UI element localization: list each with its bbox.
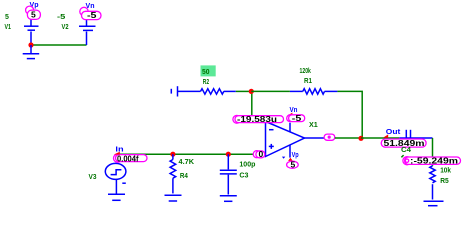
- wire junction to R1: [251, 90, 290, 92]
- svg-text:5: 5: [31, 10, 36, 20]
- svg-text:10k: 10k: [440, 168, 451, 175]
- label Vp: [30, 2, 39, 9]
- node junction R4: [170, 152, 175, 157]
- svg-text:R2: R2: [203, 79, 209, 86]
- input port I: [171, 86, 177, 96]
- svg-text:50: 50: [202, 69, 210, 76]
- node junction V1/V2/gnd: [28, 42, 33, 47]
- svg-text:Vp: Vp: [292, 152, 299, 159]
- op-amp U X1: [266, 122, 305, 158]
- label Out: [386, 129, 401, 136]
- label Vn: [86, 3, 95, 10]
- svg-text:0: 0: [259, 149, 264, 159]
- marker Vp: [288, 158, 293, 161]
- svg-text:-5: -5: [292, 113, 302, 123]
- svg-text:4.7K: 4.7K: [179, 159, 195, 166]
- label Vp (op-amp V+): [292, 152, 299, 159]
- wire port to R2: [178, 90, 201, 92]
- svg-text:R5: R5: [440, 178, 449, 185]
- bias balloon -19.583u (inverting input): [233, 114, 284, 124]
- designator C4: [401, 147, 411, 154]
- bias balloon -5 (op-amp V-): [287, 113, 305, 123]
- designator V1: [5, 24, 12, 31]
- wire junction down to inverting input: [251, 94, 253, 116]
- marker In: [114, 152, 120, 155]
- bias balloon V2 value -5: [80, 7, 101, 20]
- svg-text:R4: R4: [180, 173, 188, 180]
- designator R4: [180, 173, 188, 180]
- wire op-amp output: [305, 137, 325, 139]
- ground (V3): [108, 194, 125, 200]
- svg-text:-5: -5: [57, 14, 65, 21]
- svg-text:V2: V2: [62, 24, 69, 31]
- resistor R5: [430, 166, 435, 200]
- bias balloon 0.004f (In): [114, 154, 148, 164]
- designator X1: [309, 122, 318, 129]
- ground (R5): [424, 201, 444, 206]
- label Vn (op-amp V-): [290, 107, 298, 114]
- value -5 (V2): [57, 14, 65, 21]
- resistor R1: [290, 89, 338, 95]
- node junction C3: [226, 152, 231, 157]
- marker tick: [401, 155, 403, 157]
- designator V3: [89, 174, 97, 181]
- voltage source V2: [79, 20, 96, 45]
- value 100p: [239, 161, 255, 168]
- wire R2 to junction: [236, 90, 252, 92]
- svg-text::-59.249m: :-59.249m: [410, 156, 459, 166]
- value 50 (highlighted): [201, 65, 216, 76]
- wire output to node: [335, 137, 361, 139]
- svg-text:X1: X1: [309, 122, 318, 129]
- voltage source V1: [24, 20, 39, 45]
- value 10k: [440, 168, 451, 175]
- wire In row: [116, 153, 253, 155]
- stimulus source V3: [105, 163, 126, 193]
- ground (C3): [220, 196, 237, 202]
- bias balloon -59.249m (C4/R5 node): [403, 156, 461, 166]
- designator R2: [203, 79, 209, 86]
- designator C3: [239, 173, 248, 180]
- node junction R2/R1/opamp: [249, 89, 254, 94]
- svg-text:V3: V3: [89, 174, 97, 181]
- resistor R2: [201, 89, 236, 95]
- designator R1: [304, 78, 312, 85]
- wire V1 to V2 ground rail: [31, 44, 87, 46]
- svg-text:-19.583u: -19.583u: [237, 114, 277, 124]
- marker Vn: [288, 113, 293, 116]
- resistor R4: [170, 154, 176, 193]
- wire R1 to output node (feedback): [337, 91, 362, 138]
- value 5 (V1): [5, 14, 9, 21]
- bias balloon 0 (non-inverting input): [253, 149, 265, 159]
- svg-text:R1: R1: [304, 78, 312, 85]
- wire output node to C4: [361, 137, 399, 139]
- bias balloon (output): [324, 134, 335, 140]
- svg-text:-5: -5: [87, 10, 97, 20]
- value 120k: [300, 68, 311, 75]
- svg-text:C4: C4: [401, 147, 411, 154]
- svg-text:0.004f: 0.004f: [117, 154, 139, 164]
- bias balloon 5 (op-amp V+): [287, 159, 299, 169]
- svg-text:V1: V1: [5, 24, 12, 31]
- designator R5: [440, 178, 449, 185]
- capacitor C3: [220, 154, 237, 194]
- wire C4 to R5: [432, 138, 434, 166]
- designator V2: [62, 24, 69, 31]
- svg-text:120k: 120k: [300, 68, 311, 75]
- capacitor C4: [399, 130, 432, 146]
- svg-text:100p: 100p: [239, 161, 255, 168]
- arrow marker: [282, 157, 285, 159]
- ground (R4): [165, 195, 182, 201]
- bias balloon 51.849m (Out): [381, 138, 426, 148]
- svg-text:C3: C3: [239, 173, 248, 180]
- svg-text:5: 5: [291, 159, 296, 169]
- label In: [115, 146, 123, 153]
- value 4.7K: [179, 159, 195, 166]
- svg-text:5: 5: [5, 14, 9, 21]
- bias balloon V1 value 5: [26, 6, 41, 20]
- node junction output: [358, 136, 363, 141]
- ground (supplies): [23, 45, 40, 59]
- marker Out: [383, 134, 388, 137]
